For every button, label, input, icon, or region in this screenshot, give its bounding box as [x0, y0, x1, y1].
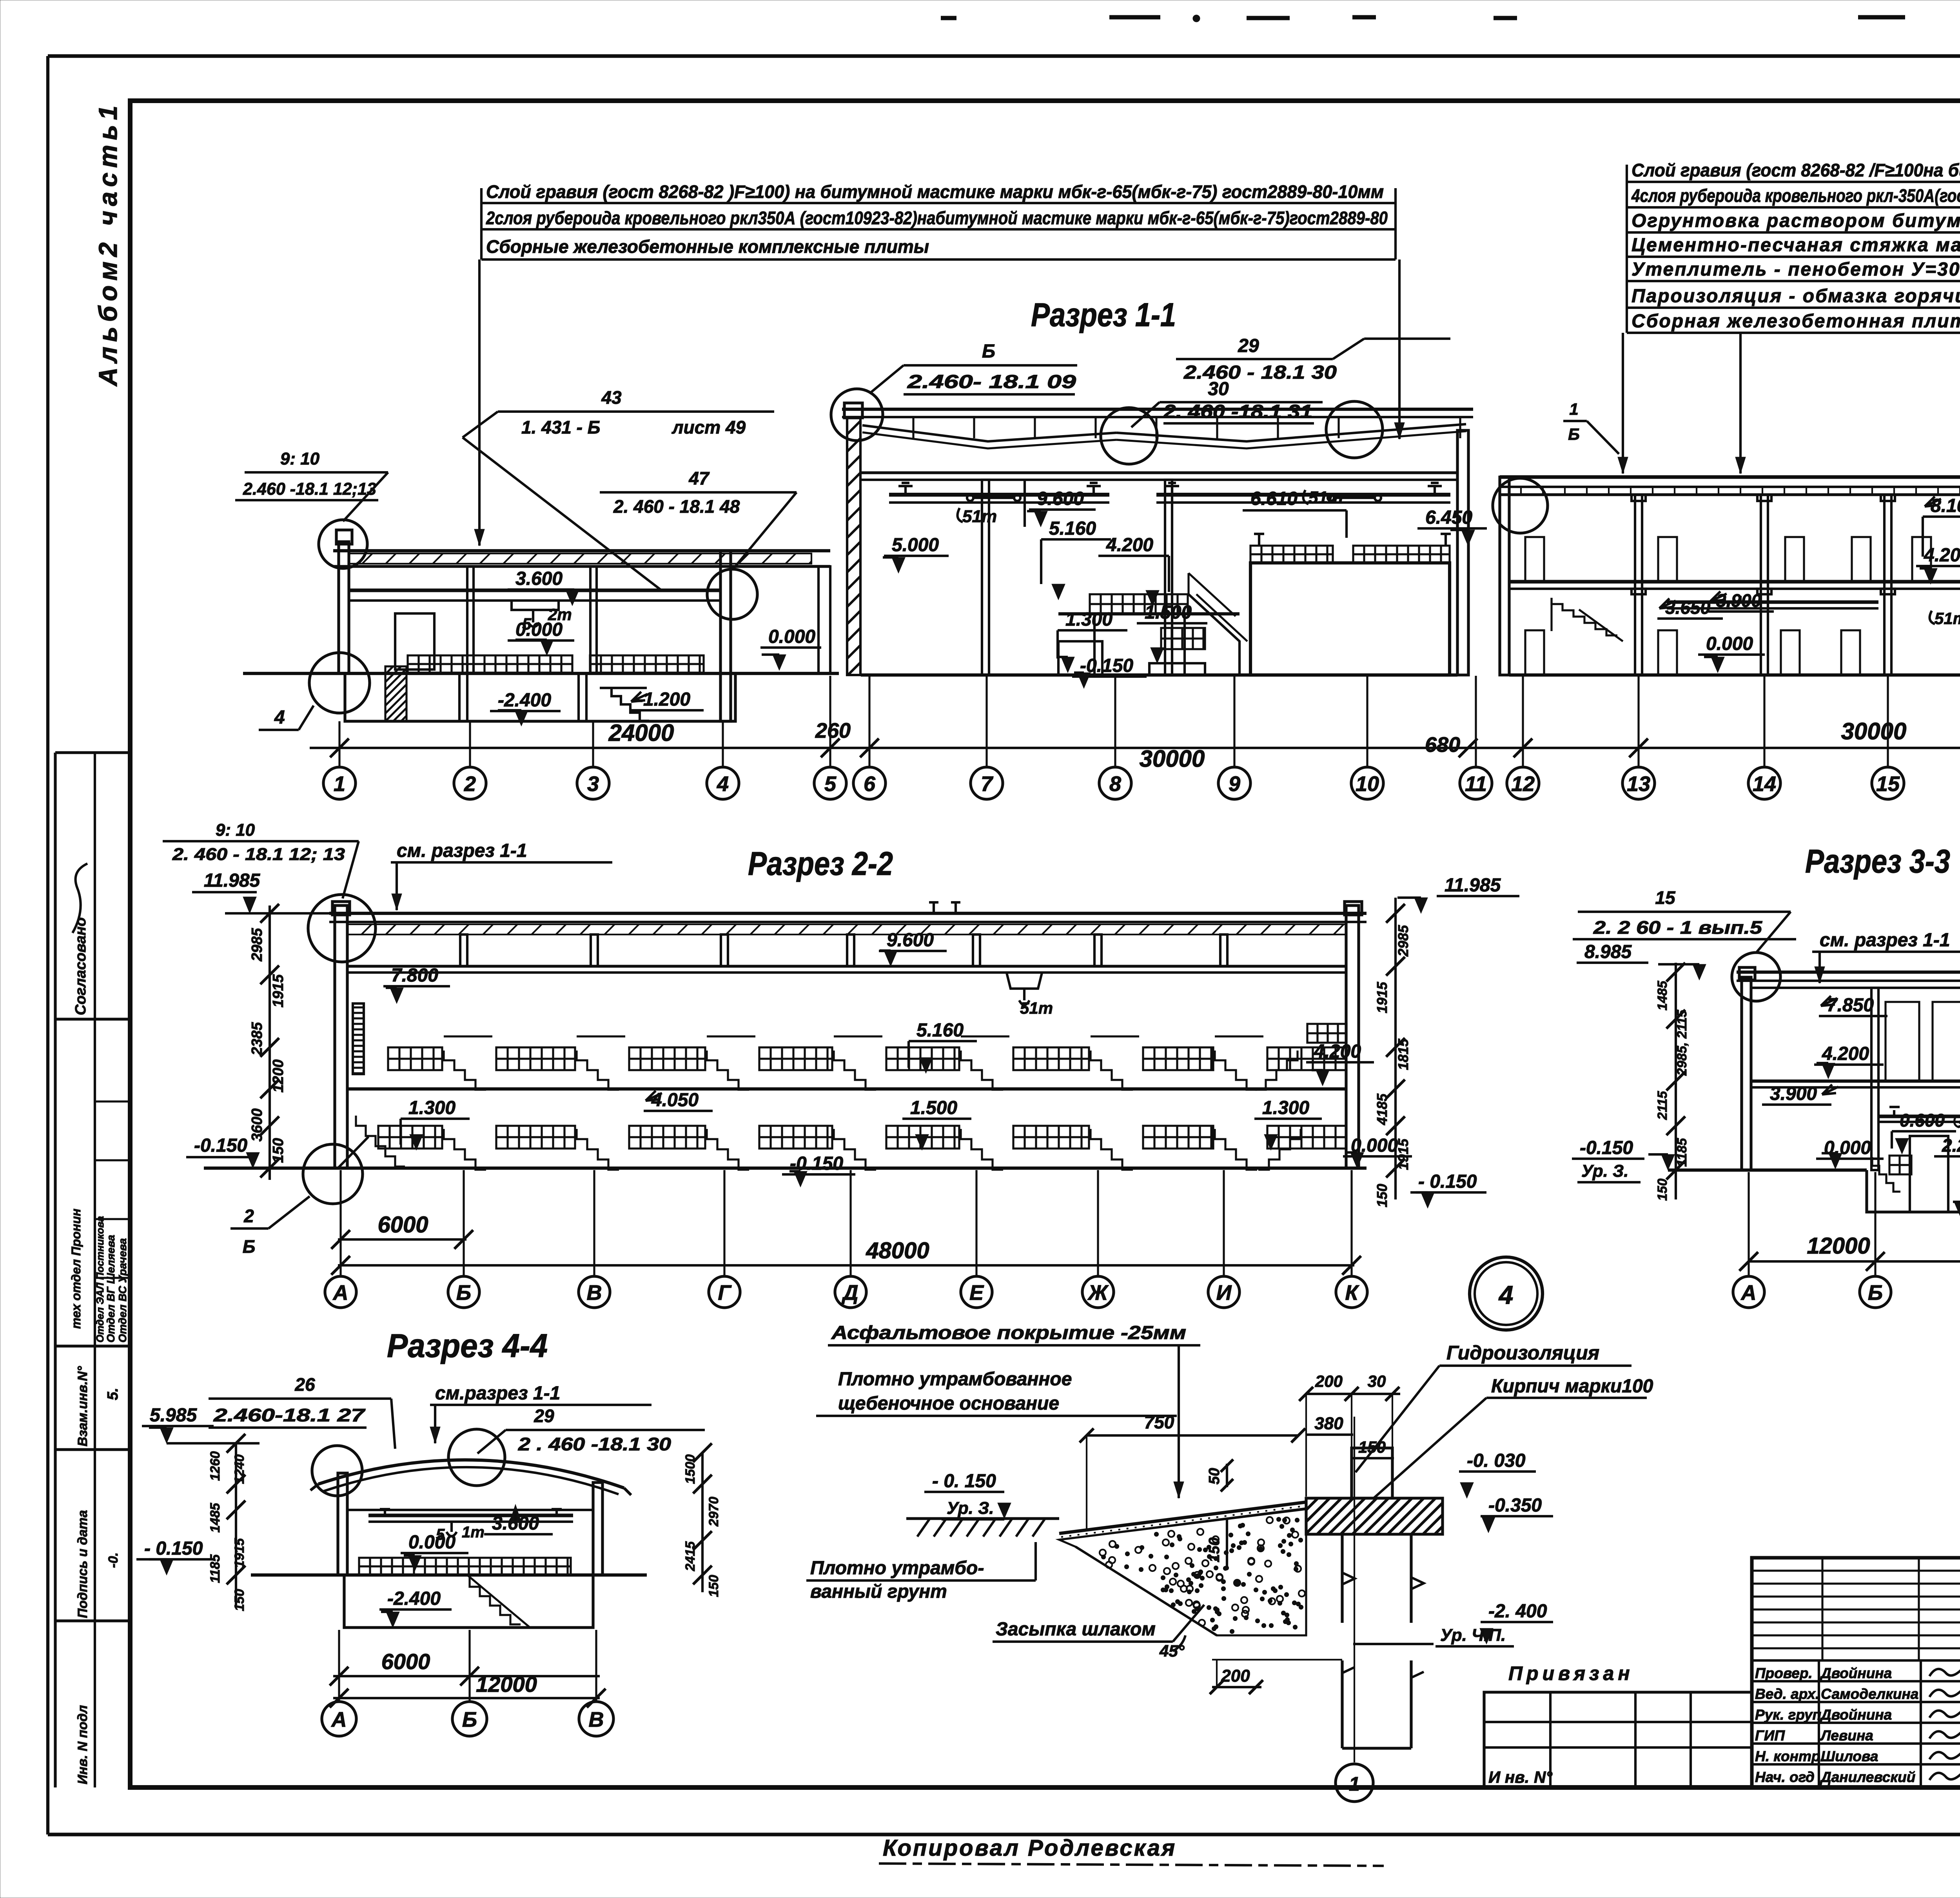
roof layers note line 1 (right) [1627, 160, 1960, 182]
elevation 1.300 (2-2) left [401, 1098, 470, 1150]
label 51т (3-3) [1955, 1114, 1960, 1132]
detail circle 4-4 eave [312, 1446, 362, 1496]
axis line 9 [1233, 676, 1235, 767]
svg-text:Б: Б [982, 341, 995, 362]
4-4 right dim 1500 [683, 1454, 698, 1484]
svg-text:1: 1 [1569, 400, 1578, 418]
svg-text:Подпись и дата: Подпись и дата [75, 1510, 90, 1618]
svg-text:щебеночное основание: щебеночное основание [838, 1393, 1059, 1414]
crane beam left building [349, 590, 720, 601]
svg-text:2: 2 [464, 772, 476, 796]
elevation -0.150 left (3-3) [1572, 1138, 1675, 1170]
elevation 4.200 (3-3) [1814, 1043, 1884, 1079]
detail axis circle 1 [1336, 1764, 1373, 1802]
svg-text:Рук. груп: Рук. груп [1755, 1707, 1821, 1723]
svg-text:А: А [332, 1281, 348, 1305]
svg-text:3600: 3600 [249, 1109, 265, 1142]
floor checker strip B [590, 655, 704, 673]
section 1-1 title [1031, 296, 1176, 333]
left building roof slab [333, 551, 830, 566]
axis line 1 [338, 721, 340, 767]
stamp row Отдел ВГ [105, 1235, 117, 1343]
detail circle mid-left parapet [831, 389, 883, 441]
detail asphalt wedge [1059, 1502, 1306, 1540]
svg-text:7.800: 7.800 [391, 965, 438, 986]
dim text 260 [815, 719, 851, 742]
svg-text:Слой гравия (гост 8268-82 )F≥: Слой гравия (гост 8268-82 )F≥100) на бит… [486, 181, 1384, 202]
detail dim 150 vert [1206, 1519, 1227, 1570]
axis circle И (2-2) [1208, 1276, 1240, 1308]
elevation 6.450 [1417, 507, 1487, 546]
axis circle В (4-4) [579, 1702, 613, 1736]
svg-text:Инв. N подл: Инв. N подл [75, 1705, 90, 1784]
mid ceiling line [861, 473, 1457, 480]
svg-text:5: 5 [824, 772, 837, 796]
detail circle axis4 crane [707, 569, 757, 619]
svg-text:2. 460 - 18.1 48: 2. 460 - 18.1 48 [613, 496, 740, 517]
axis line 10 [1366, 676, 1368, 767]
axis line И (2-2) [1223, 1170, 1225, 1276]
signature 1 [1929, 1664, 1960, 1676]
svg-text:150: 150 [1206, 1537, 1223, 1562]
axis3 column [590, 566, 597, 673]
elevation 5.000 mid [883, 535, 949, 573]
привязан table [1484, 1692, 1752, 1787]
2-2 upper floor stairs [444, 1051, 1257, 1090]
svg-text:1: 1 [334, 772, 345, 796]
callout 15 (3-3) [1573, 887, 1796, 952]
big node circle 4 [1470, 1257, 1543, 1330]
4-4 walls [338, 1473, 603, 1575]
small table mid [1149, 628, 1205, 675]
title block grid [1752, 1558, 1960, 1787]
svg-text:В: В [587, 1281, 602, 1305]
svg-text:Ур. Ч.П.: Ур. Ч.П. [1440, 1626, 1506, 1645]
svg-text:Левина: Левина [1820, 1727, 1873, 1744]
walkway slab [731, 551, 830, 673]
svg-text:47: 47 [688, 468, 710, 488]
elevation -0.150 (2-2) left [186, 1135, 260, 1168]
axis circle Д (2-2) [835, 1276, 866, 1308]
detail wall lower part [1342, 1660, 1424, 1748]
axis circle 11 [1460, 767, 1492, 799]
3-3 mid floor [1751, 1081, 1960, 1087]
svg-text:150: 150 [1374, 1184, 1390, 1207]
label Инв N [1488, 1768, 1553, 1786]
axis4 wall [720, 551, 731, 721]
roof layers note line 2 (left) [481, 208, 1396, 229]
detail brick cap hatch [1306, 1498, 1443, 1534]
axis line В (4-4) [595, 1630, 597, 1702]
3-3 left dim 1485 [1655, 980, 1670, 1011]
привязан note [1508, 1662, 1634, 1684]
title row ГИП [1755, 1727, 1873, 1744]
svg-text:Привязан: Привязан [1508, 1662, 1634, 1684]
axis circle Б (4-4) [452, 1702, 487, 1736]
label 51т right A [1930, 609, 1960, 628]
detail circle 2-2 top-left [308, 895, 376, 962]
signature 4 [1929, 1726, 1960, 1738]
mid interior column B [1165, 480, 1172, 675]
svg-text:-2. 400: -2. 400 [1488, 1601, 1547, 1622]
4-4 interior line [347, 1509, 593, 1511]
right lower doors [1525, 630, 1860, 675]
4-4 left dim 1185 [208, 1554, 223, 1583]
elevation 0.000 (4-4) [401, 1532, 468, 1571]
title row Провер. [1755, 1665, 1892, 1681]
svg-text:Разрез 1-1: Разрез 1-1 [1031, 296, 1176, 333]
svg-text:Сборные железобетонные компл: Сборные железобетонные комплексные плиты [486, 236, 929, 257]
2-2 roof slab [329, 913, 1367, 973]
3-3 roof slab [1737, 972, 1960, 988]
svg-text:2. 460 - 18.1 12; 13: 2. 460 - 18.1 12; 13 [172, 845, 345, 864]
signature 6 [1929, 1768, 1960, 1780]
section 3-3 title [1805, 843, 1950, 880]
2-2 left dim 2985 [249, 928, 265, 962]
svg-text:Самоделкина: Самоделкина [1821, 1686, 1918, 1702]
svg-text:260: 260 [815, 719, 851, 742]
svg-text:-2.400: -2.400 [498, 690, 551, 711]
detail dim 380 [1306, 1414, 1353, 1435]
svg-text:2415: 2415 [683, 1541, 698, 1571]
3-3 left dim 2985, 2115 [1675, 1009, 1690, 1076]
svg-text:Разрез 2-2: Разрез 2-2 [748, 845, 893, 882]
detail dim 50 vert [1206, 1459, 1233, 1492]
axis circle 15 [1872, 767, 1904, 799]
detail dim 200 30 top [1299, 1372, 1400, 1497]
4-4 crane beam [368, 1509, 573, 1522]
stamp row Отдел ЭАЛ [94, 1216, 106, 1343]
elevation 1.500 (2-2) [902, 1098, 971, 1150]
callout 29 (4-4) [477, 1406, 705, 1454]
svg-text:Б: Б [462, 1708, 477, 1731]
right building column 15 [1881, 495, 1895, 675]
elevation 4.200 (2-2) [1306, 1041, 1374, 1086]
callout 1/Б fraction [1563, 400, 1619, 454]
4-4 dim line lower [330, 1672, 606, 1707]
svg-text:1485: 1485 [1655, 980, 1670, 1011]
2-2 right corner upper stair [1255, 1024, 1347, 1090]
2-2 right dim 150 [1374, 1184, 1390, 1207]
svg-text:И: И [1216, 1281, 1232, 1305]
label Ур.Ч.П. (detail) [1353, 1626, 1514, 1646]
elevation 0.000 right [1698, 633, 1765, 673]
note asphalt [828, 1323, 1200, 1345]
svg-text:4: 4 [1498, 1280, 1514, 1309]
elevation 9.600 [1025, 480, 1096, 527]
2-2 right dim chain [1386, 898, 1405, 1199]
elevation -2.400 (detail) [1480, 1601, 1553, 1644]
elevation 3.900 [1708, 590, 1774, 611]
svg-text:4.200: 4.200 [1924, 545, 1960, 566]
svg-text:26: 26 [294, 1374, 315, 1395]
svg-text:К: К [1345, 1281, 1359, 1305]
elevation -2.400 (4-4) [379, 1588, 452, 1628]
svg-text:11: 11 [1465, 772, 1487, 796]
4-4 roof arc [310, 1460, 631, 1495]
svg-text:1915: 1915 [1395, 1138, 1411, 1170]
elevation 8.985 (3-3) [1577, 942, 1706, 980]
svg-text:Слой гравия (гост 8268-82 /F≥1: Слой гравия (гост 8268-82 /F≥100на битум… [1632, 160, 1960, 180]
svg-text:Н. контр.: Н. контр. [1755, 1748, 1824, 1764]
svg-text:2. 460 -18.1 31: 2. 460 -18.1 31 [1163, 401, 1312, 422]
2-2 right dim 1915 [1374, 982, 1390, 1013]
3-3 left dim 1185 [1675, 1138, 1690, 1167]
mid building left wall [844, 403, 862, 675]
axis circle Е (2-2) [961, 1276, 992, 1308]
svg-text:10: 10 [1356, 772, 1379, 796]
svg-text:И нв. N°: И нв. N° [1488, 1768, 1553, 1786]
roof layers note line 2 (right) [1627, 185, 1960, 207]
4-4 crane hook [436, 1522, 485, 1543]
right note leader to roof B [1735, 333, 1746, 474]
crane trolley left [967, 495, 1020, 501]
axis line 6 [868, 676, 870, 767]
svg-text:-0.150: -0.150 [1580, 1138, 1633, 1158]
2-2 left dim 2385 [249, 1022, 265, 1056]
svg-text:Согласовано: Согласовано [73, 917, 89, 1015]
svg-text:Ур. З.: Ур. З. [1581, 1161, 1629, 1181]
svg-text:3.900: 3.900 [1770, 1083, 1817, 1104]
elevation 5.160 [1041, 518, 1111, 600]
svg-text:0.000: 0.000 [408, 1532, 456, 1553]
svg-text:51т: 51т [1958, 1114, 1960, 1132]
3-3 ground line [1668, 1169, 1867, 1172]
svg-text:13: 13 [1627, 772, 1650, 796]
2-2 right dim 2985 [1395, 925, 1411, 957]
floor checker strip A [408, 655, 572, 673]
detail wall axis line [1354, 1417, 1355, 1762]
elevation 4.200 right [1916, 545, 1960, 584]
elevation 1.300 (2-2) right [1254, 1098, 1322, 1150]
2-2 left dim 1200 [270, 1060, 287, 1093]
svg-text:Взам.инв.N°: Взам.инв.N° [75, 1366, 90, 1446]
section 1-1 dimension line [310, 739, 1960, 757]
svg-text:680: 680 [1425, 733, 1460, 757]
mezzanine platform [1058, 594, 1247, 675]
callout 47 ref [600, 468, 797, 569]
dim text 680 [1425, 733, 1460, 757]
svg-text:8: 8 [1109, 772, 1121, 796]
svg-text:Плотно утрамбо-: Плотно утрамбо- [810, 1558, 984, 1579]
basement outline [345, 673, 735, 721]
3-3 left dim 150 [1655, 1179, 1670, 1201]
mid interior column A [982, 480, 989, 675]
album title vertical text [93, 101, 122, 387]
svg-text:0.000: 0.000 [1706, 633, 1753, 654]
callout 2-2 ref 9:10 [163, 820, 359, 898]
svg-text:-0.150: -0.150 [194, 1135, 247, 1156]
elevation 1.300 mid [1058, 609, 1127, 673]
svg-text:- 0. 150: - 0. 150 [932, 1471, 996, 1492]
elevation 5.985 (4-4) [142, 1405, 260, 1443]
label 45deg [1159, 1635, 1185, 1660]
label 6.610 51т [1243, 488, 1347, 538]
mid building right wall [1457, 430, 1468, 675]
stamp signature squiggle [73, 864, 87, 933]
elevation -1.200 [629, 689, 704, 710]
svg-text:1.300: 1.300 [408, 1098, 456, 1118]
crane hook 2t [512, 601, 572, 633]
right roof joists [1521, 487, 1960, 495]
big tank [1250, 563, 1450, 675]
axis line 12 [1522, 676, 1524, 767]
4-4 left dim 1240 [232, 1454, 247, 1484]
elevation -0.150 (4-4) [136, 1538, 215, 1575]
svg-text:29: 29 [534, 1406, 554, 1426]
scan specks top [941, 17, 1905, 18]
svg-text:Е: Е [969, 1281, 984, 1305]
svg-text:ванный грунт: ванный грунт [810, 1581, 947, 1602]
svg-text:см. разрез 1-1: см. разрез 1-1 [1820, 930, 1950, 951]
svg-text:30: 30 [1208, 379, 1229, 399]
svg-text:1915: 1915 [232, 1538, 247, 1568]
axis line 14 [1763, 676, 1765, 767]
svg-text:Плотно утрамбованное: Плотно утрамбованное [838, 1369, 1072, 1390]
dim 12000 (3-3) [1807, 1233, 1870, 1259]
2-2 mid floor line [347, 1087, 1346, 1091]
svg-text:6000: 6000 [377, 1212, 428, 1238]
2-2 left dim 150 [270, 1138, 287, 1163]
signature 5 [1929, 1747, 1960, 1759]
section 4-4 title [387, 1327, 548, 1364]
svg-text:3.600: 3.600 [515, 568, 563, 589]
3-3 pit walls [1867, 1087, 1960, 1212]
2-2 right dim 4185 [1374, 1093, 1390, 1125]
3-3 dim line [1739, 1252, 1960, 1271]
see section 1-1 note (2-2) [391, 840, 612, 910]
basement wall A [459, 673, 467, 721]
svg-text:4.200: 4.200 [1106, 535, 1153, 555]
svg-text:4.200: 4.200 [1822, 1043, 1869, 1064]
mid building roof top [842, 409, 1473, 417]
axis circle 1 [323, 767, 356, 799]
elevation -2.400 [490, 690, 561, 726]
axis2 column [467, 566, 474, 673]
svg-text:0.000: 0.000 [768, 626, 815, 647]
svg-text:2.460- 18.1 09: 2.460- 18.1 09 [907, 372, 1076, 392]
svg-text:1240: 1240 [232, 1454, 247, 1484]
title row Вед. арх. [1755, 1686, 1918, 1702]
elevation 7.850 (3-3) [1819, 994, 1887, 1016]
2-2 left dim 1915 [270, 974, 287, 1007]
svg-text:А: А [1740, 1281, 1757, 1305]
svg-text:5.985: 5.985 [150, 1405, 197, 1426]
stamp label Инв. N подл. [75, 1705, 90, 1784]
2-2 left dim 3600 [249, 1109, 265, 1142]
detail curb [1352, 1448, 1392, 1498]
svg-text:Цементно-песчаная стяжка марки: Цементно-песчаная стяжка марки 50-15мм [1632, 235, 1960, 256]
callout 26 (4-4) [209, 1374, 395, 1449]
detail circle 3-3 top-left [1732, 953, 1780, 1001]
svg-text:5.160: 5.160 [916, 1020, 964, 1041]
axis line 5 [829, 676, 831, 767]
svg-text:см. разрез 1-1: см. разрез 1-1 [397, 840, 527, 861]
roof layers note line 6 (right) [1627, 286, 1960, 308]
elevation -0.150 mid [1072, 655, 1147, 688]
right upper doors [1525, 537, 1960, 582]
svg-text:1915: 1915 [270, 974, 287, 1007]
2-2 right dim 1815 [1395, 1038, 1411, 1070]
svg-text:4: 4 [717, 772, 729, 796]
svg-text:150: 150 [1358, 1438, 1386, 1456]
detail circle mid-center [1101, 408, 1157, 464]
svg-text:Огрунтовка раствором битума пя: Огрунтовка раствором битума пятой марки … [1632, 210, 1960, 231]
svg-text:Разрез 3-3: Разрез 3-3 [1805, 843, 1950, 880]
axis line 15 [1887, 676, 1889, 767]
svg-text:14: 14 [1753, 772, 1776, 796]
svg-text:380: 380 [1314, 1414, 1343, 1433]
svg-text:Шилова: Шилова [1821, 1748, 1878, 1764]
title row Нач. огд [1755, 1769, 1915, 1785]
axis line К (2-2) [1350, 1170, 1352, 1276]
svg-text:А: А [331, 1708, 347, 1731]
svg-text:0.000: 0.000 [515, 619, 563, 640]
svg-text:Сборная железобетонная плита: Сборная железобетонная плита [1632, 311, 1960, 332]
elevation 0.000 mid [760, 626, 821, 670]
svg-text:Кирпич марки100: Кирпич марки100 [1491, 1376, 1653, 1397]
copied by note [879, 1835, 1384, 1866]
elevation 2.200 (3-3) [1934, 1135, 1960, 1156]
roof layers note line 1 (left) [481, 181, 1396, 203]
svg-text:1485: 1485 [208, 1502, 223, 1533]
axis line Б (3-3) [1874, 1172, 1876, 1276]
2-2 left wall [332, 902, 350, 1168]
axis circle 9 [1218, 767, 1250, 799]
mid ground line [861, 673, 1457, 677]
door opening left building [395, 613, 434, 670]
2-2 dim line 48000 [331, 1238, 1361, 1275]
axis circle 8 [1099, 767, 1131, 799]
4-4 left dim 1485 [208, 1502, 223, 1533]
axis circle 4 [707, 767, 739, 799]
svg-text:1185: 1185 [208, 1554, 223, 1583]
4-4 basement stair [467, 1575, 530, 1628]
svg-text:4: 4 [274, 707, 285, 728]
elevation 0.000 left [508, 619, 574, 655]
elevation -1.800 (3-3) [1953, 1189, 1960, 1218]
svg-text:4слоя рубероида кровельного рк: 4слоя рубероида кровельного ркл-350А(гос… [1631, 185, 1960, 206]
axis line 7 [985, 676, 987, 767]
4-4 left dim 150 [232, 1589, 247, 1611]
elevation 5.160 (2-2) [909, 1020, 977, 1073]
elevation 11.985 left (2-2) [192, 870, 334, 913]
svg-text:6.450: 6.450 [1425, 507, 1472, 528]
label Ур.З. (3-3) [1577, 1161, 1641, 1182]
svg-text:3: 3 [587, 772, 599, 796]
elevation 4.200 [1098, 535, 1169, 606]
elevation 7.800 (2-2) [383, 965, 450, 1003]
svg-text:30000: 30000 [1140, 746, 1205, 772]
left stamp column grid [55, 753, 130, 1787]
section 2-2 title [748, 845, 893, 882]
4-4 right dim 2970 [706, 1497, 721, 1527]
svg-text:200: 200 [1221, 1666, 1250, 1686]
svg-text:тех отдел Пронин: тех отдел Пронин [69, 1208, 83, 1329]
svg-text:2.460-18.1 27: 2.460-18.1 27 [213, 1405, 366, 1425]
svg-text:11.985: 11.985 [1445, 875, 1501, 896]
elevation 3.900 (3-3) [1762, 1083, 1840, 1105]
callout 9:10 ref [235, 449, 388, 521]
label 51т left [958, 507, 997, 526]
axis circle Г (2-2) [709, 1276, 740, 1308]
svg-text:Вед. арх.: Вед. арх. [1755, 1686, 1819, 1702]
4-4 ground line [251, 1573, 647, 1577]
svg-text:Б: Б [1568, 425, 1580, 443]
detail circle axis1 bottom [309, 653, 370, 713]
crane hook (2-2) [1007, 973, 1042, 1005]
2-2 right dim 1915 [1395, 1138, 1411, 1170]
